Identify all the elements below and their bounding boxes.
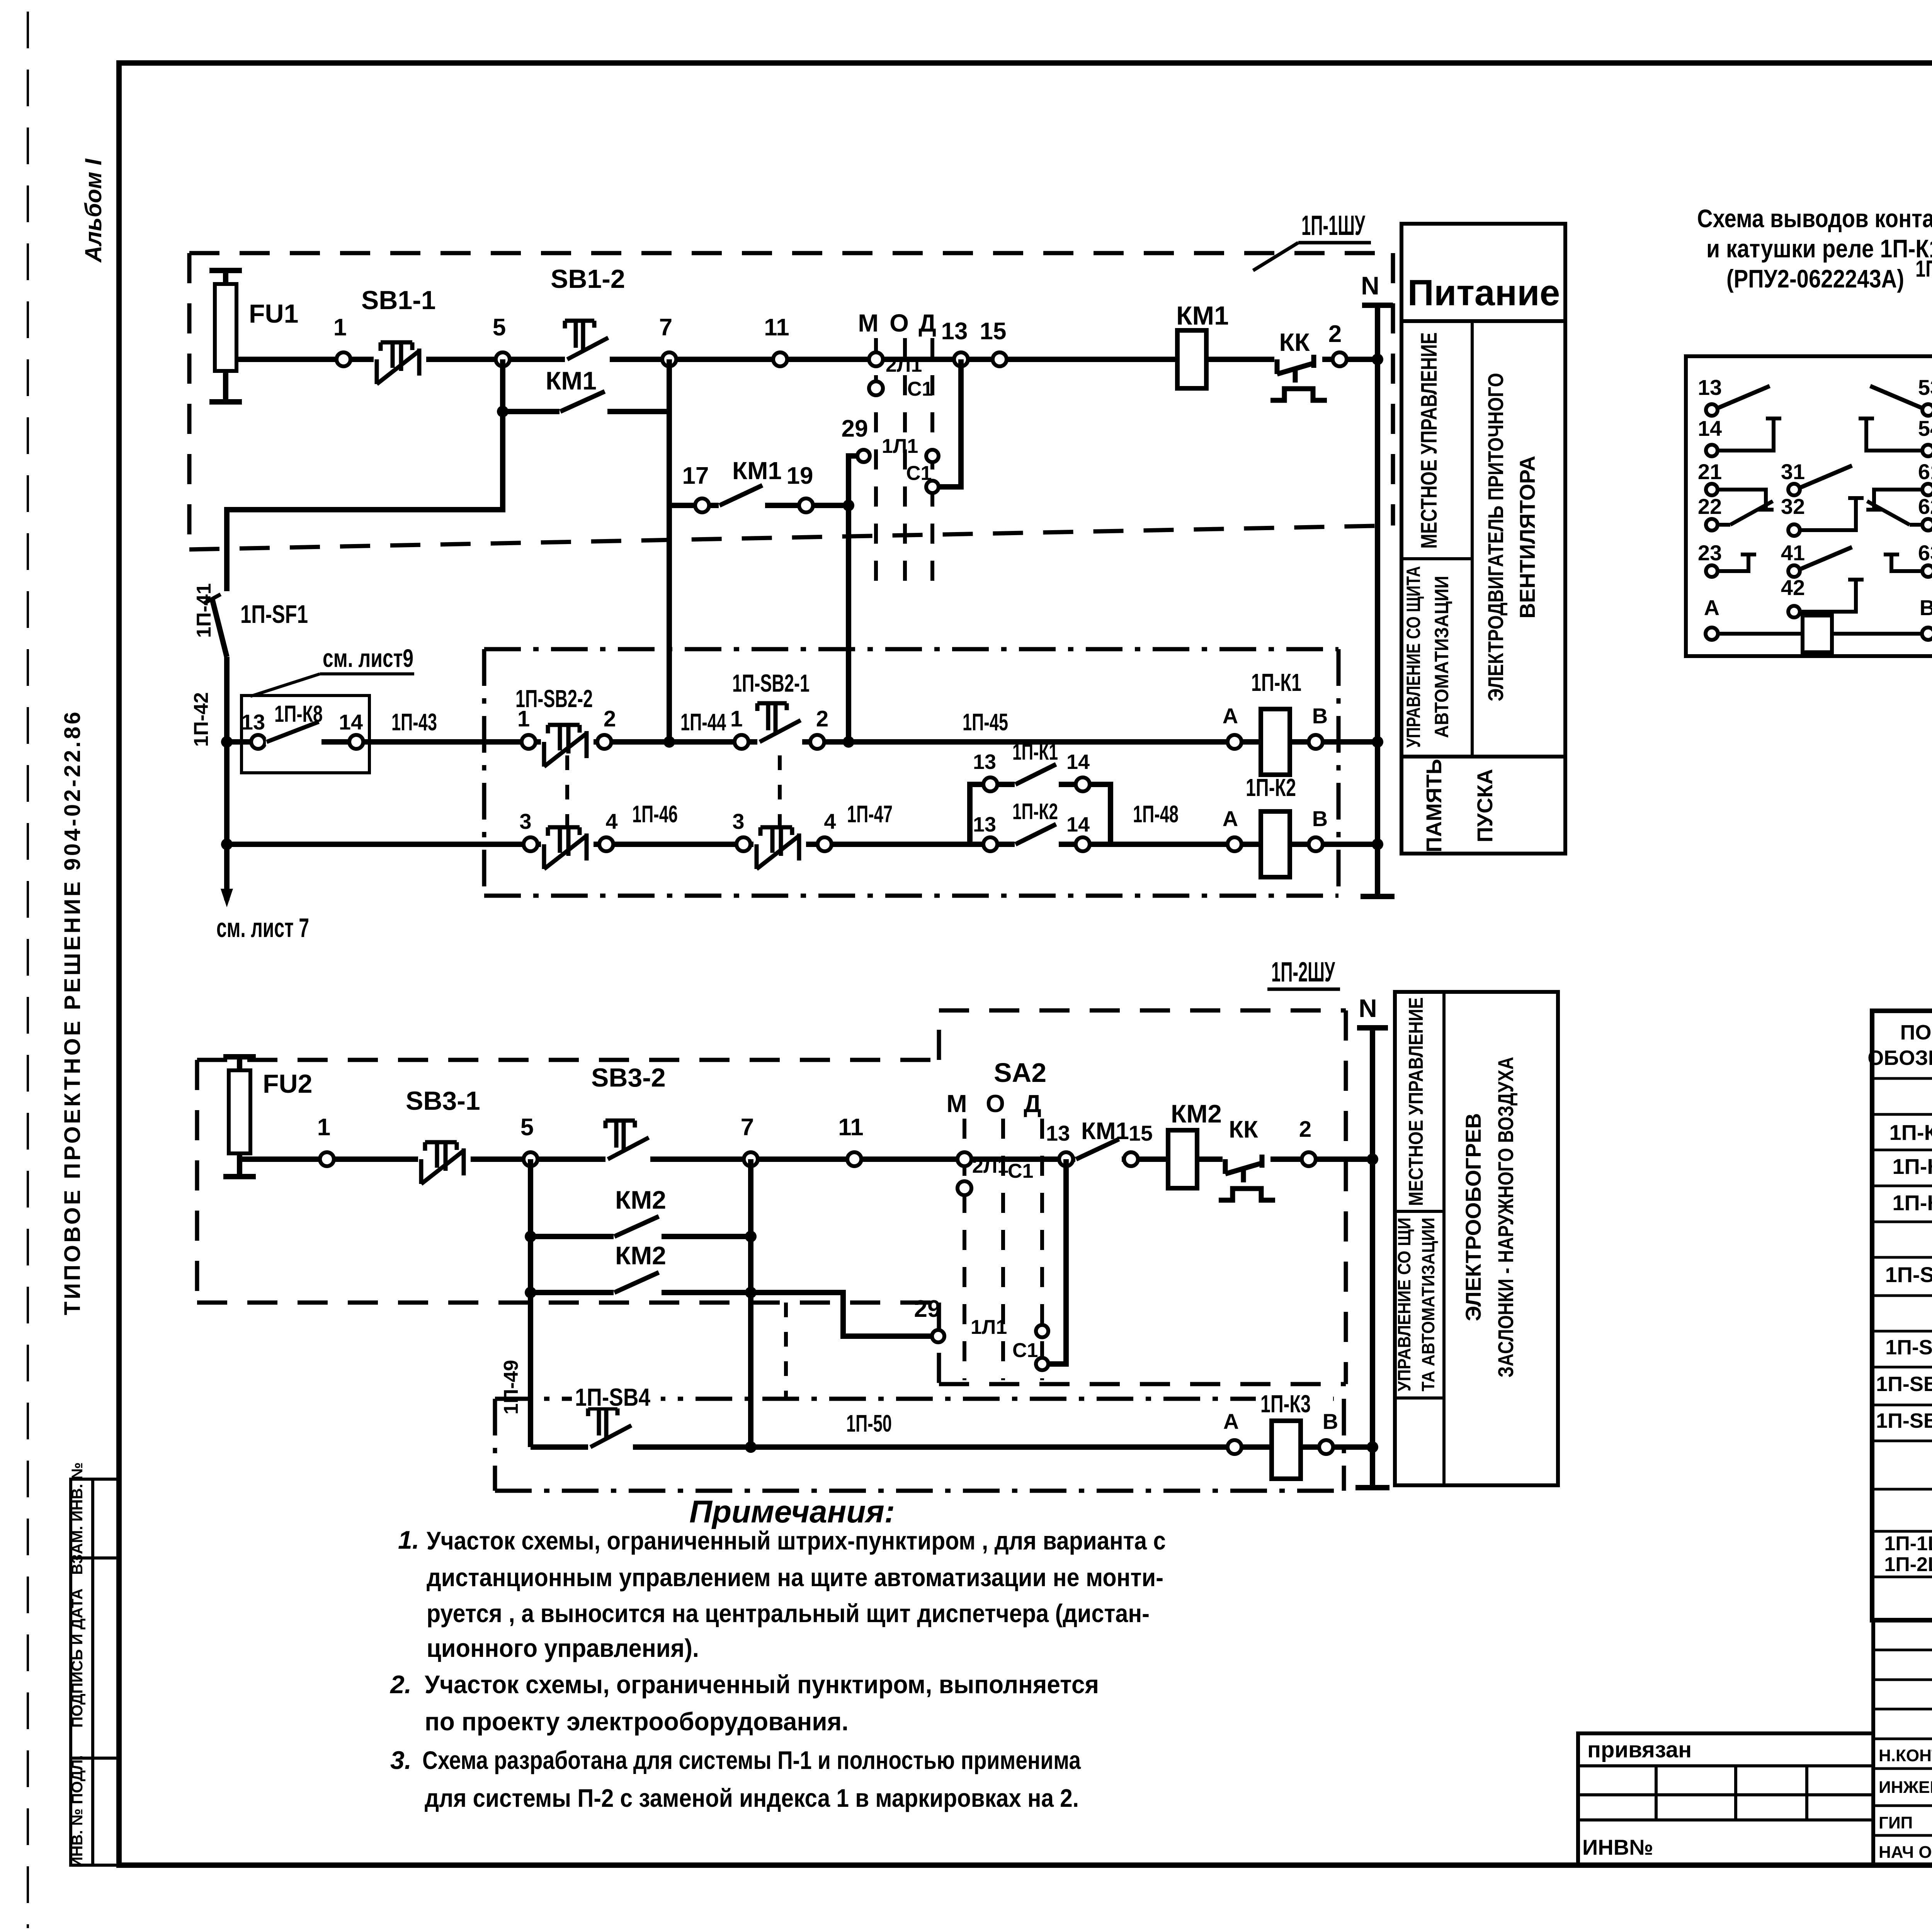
svg-text:С1: С1: [907, 378, 933, 400]
svg-text:1Л1: 1Л1: [882, 435, 918, 457]
svg-text:53: 53: [1918, 375, 1932, 400]
svg-text:1П-48: 1П-48: [1133, 801, 1179, 828]
svg-text:1: 1: [730, 706, 743, 731]
svg-text:13: 13: [1698, 375, 1722, 400]
svg-text:42: 42: [1781, 575, 1805, 600]
svg-text:А: А: [1704, 595, 1719, 620]
svg-text:2: 2: [604, 706, 616, 731]
svg-text:1П-46: 1П-46: [632, 801, 678, 828]
svg-text:ПАМЯТЬ: ПАМЯТЬ: [1422, 759, 1446, 852]
svg-text:1: 1: [317, 1114, 330, 1141]
svg-text:1П-1ШУ: 1П-1ШУ: [1301, 210, 1366, 241]
svg-text:1Л1: 1Л1: [971, 1316, 1007, 1338]
svg-text:О: О: [889, 309, 909, 337]
svg-text:1П-SB4: 1П-SB4: [575, 1383, 650, 1411]
svg-text:ВЗАМ. ИНВ. №: ВЗАМ. ИНВ. №: [69, 1462, 86, 1575]
svg-text:А: А: [1223, 1409, 1239, 1434]
svg-text:ционного управления).: ционного управления).: [427, 1634, 699, 1662]
svg-text:1П-SF1: 1П-SF1: [240, 600, 308, 628]
svg-text:В: В: [1920, 595, 1932, 620]
svg-text:КМ2: КМ2: [615, 1185, 666, 1214]
svg-text:1П-44: 1П-44: [680, 709, 726, 736]
svg-text:Питание: Питание: [1408, 272, 1560, 313]
svg-text:1П-К2: 1П-К2: [1246, 774, 1296, 801]
svg-text:ИНЖЕН.: ИНЖЕН.: [1879, 1778, 1932, 1797]
svg-text:С1: С1: [906, 462, 932, 485]
svg-text:Д: Д: [918, 309, 936, 337]
svg-text:1П-SB2-1: 1П-SB2-1: [1876, 1372, 1932, 1396]
svg-text:ВЕНТИЛЯТОРА: ВЕНТИЛЯТОРА: [1515, 456, 1539, 618]
svg-text:21: 21: [1698, 459, 1722, 484]
svg-text:13: 13: [973, 813, 996, 836]
svg-text:2Л1: 2Л1: [886, 354, 922, 376]
svg-text:(РПУ2-0622243А): (РПУ2-0622243А): [1726, 264, 1904, 293]
svg-text:14: 14: [1698, 416, 1722, 440]
svg-text:1П-К1: 1П-К1: [1012, 740, 1058, 765]
svg-text:АВТОМАТИЗАЦИИ: АВТОМАТИЗАЦИИ: [1431, 576, 1452, 738]
svg-text:ИНВ. № ПОДЛ.: ИНВ. № ПОДЛ.: [69, 1755, 86, 1867]
svg-text:1П-49: 1П-49: [500, 1360, 522, 1414]
svg-text:В: В: [1312, 806, 1328, 831]
svg-text:см. лист9: см. лист9: [323, 644, 413, 672]
svg-text:ПОЗ: ПОЗ: [1900, 1021, 1932, 1044]
svg-text:3.: 3.: [390, 1746, 412, 1774]
svg-text:1П-SB2-1: 1П-SB2-1: [732, 669, 810, 697]
svg-text:1П-К2: 1П-К2: [1892, 1154, 1932, 1179]
svg-text:41: 41: [1781, 541, 1805, 565]
svg-text:1П-К3: 1П-К3: [1260, 1390, 1311, 1418]
svg-text:SB3-1: SB3-1: [406, 1086, 480, 1116]
svg-text:МЕСТНОЕ УПРАВЛЕНИЕ: МЕСТНОЕ УПРАВЛЕНИЕ: [1405, 997, 1427, 1206]
svg-text:Н.КОНТР.: Н.КОНТР.: [1879, 1746, 1932, 1765]
svg-text:3: 3: [519, 809, 531, 833]
svg-text:1П-SF1: 1П-SF1: [1885, 1262, 1932, 1287]
svg-text:руется , а выносится на цен: руется , а выносится на центральный щит …: [427, 1599, 1150, 1628]
svg-text:FU1: FU1: [249, 299, 298, 328]
svg-text:1П-К1: 1П-К1: [1251, 668, 1301, 696]
svg-text:15: 15: [980, 318, 1007, 345]
svg-text:ЭЛЕКТРООБОГРЕВ: ЭЛЕКТРООБОГРЕВ: [1461, 1113, 1485, 1321]
svg-text:для системы П-2 с заменой: для системы П-2 с заменой индекса 1 в ма…: [425, 1784, 1079, 1812]
svg-text:13: 13: [241, 710, 265, 734]
svg-text:КМ1: КМ1: [732, 457, 782, 485]
svg-text:УПРАВЛЕНИЕ СО ЩИТА: УПРАВЛЕНИЕ СО ЩИТА: [1403, 566, 1424, 748]
svg-text:22: 22: [1698, 494, 1722, 519]
svg-text:1П-43: 1П-43: [391, 709, 437, 736]
svg-text:В: В: [1312, 704, 1328, 728]
svg-text:13: 13: [973, 750, 996, 774]
svg-text:2Л1: 2Л1: [972, 1155, 1009, 1177]
svg-text:М: М: [858, 309, 878, 337]
svg-text:N: N: [1359, 994, 1377, 1022]
svg-text:КМ2: КМ2: [1171, 1099, 1222, 1128]
svg-text:Схема разработана для систе: Схема разработана для системы П-1 и полн…: [422, 1746, 1081, 1774]
svg-text:1П-41: 1П-41: [193, 583, 215, 638]
svg-text:1П-45: 1П-45: [963, 709, 1008, 736]
svg-text:ПОДПИСЬ И ДАТА: ПОДПИСЬ И ДАТА: [69, 1588, 86, 1728]
svg-text:1П-К8: 1П-К8: [274, 701, 323, 727]
svg-text:С1: С1: [1012, 1339, 1038, 1362]
svg-text:ТИПОВОЕ ПРОЕКТНОЕ РЕШЕНИЕ: ТИПОВОЕ ПРОЕКТНОЕ РЕШЕНИЕ 904-02-22.86: [60, 709, 85, 1315]
svg-text:см. лист 7: см. лист 7: [216, 913, 309, 943]
svg-text:SA2: SA2: [994, 1058, 1046, 1088]
svg-text:SB3-2: SB3-2: [591, 1063, 666, 1092]
svg-text:КК: КК: [1279, 328, 1310, 356]
svg-text:32: 32: [1781, 494, 1805, 519]
svg-text:1П-К1,: 1П-К1,: [1889, 1120, 1932, 1145]
svg-text:14: 14: [1066, 750, 1090, 774]
svg-text:А: А: [1223, 806, 1238, 831]
svg-text:11: 11: [764, 314, 789, 341]
svg-text:КМ2: КМ2: [615, 1241, 666, 1270]
svg-text:1П-К8, 2П-К8: 1П-К8, 2П-К8: [1915, 256, 1932, 282]
svg-text:11: 11: [838, 1114, 864, 1141]
svg-text:1П-1ШУ: 1П-1ШУ: [1884, 1532, 1932, 1555]
svg-text:62: 62: [1918, 494, 1932, 519]
svg-text:ОБОЗНАЧ.: ОБОЗНАЧ.: [1867, 1046, 1932, 1070]
svg-text:15: 15: [1129, 1121, 1153, 1145]
svg-text:ПУСКА: ПУСКА: [1473, 769, 1497, 842]
svg-text:3: 3: [732, 809, 744, 833]
svg-text:13: 13: [941, 318, 968, 345]
svg-text:КМ1: КМ1: [1081, 1118, 1129, 1145]
svg-text:1П-50: 1П-50: [846, 1410, 892, 1437]
svg-text:2.: 2.: [389, 1670, 412, 1699]
svg-text:В: В: [1323, 1409, 1338, 1434]
svg-text:Примечания:: Примечания:: [689, 1494, 895, 1529]
svg-text:НАЧ ОТД.: НАЧ ОТД.: [1879, 1843, 1932, 1862]
svg-text:КК: КК: [1229, 1116, 1258, 1143]
svg-text:5: 5: [520, 1114, 534, 1141]
svg-text:FU2: FU2: [263, 1069, 312, 1099]
svg-text:17: 17: [682, 463, 709, 489]
svg-text:1П-SB2-2: 1П-SB2-2: [515, 685, 593, 713]
svg-text:SB1-2: SB1-2: [551, 264, 625, 294]
svg-text:дистанционным управлением на: дистанционным управлением на щите автома…: [427, 1563, 1163, 1592]
svg-text:14: 14: [1066, 813, 1090, 836]
svg-text:УПРАВЛЕНИЕ СО ЩИ: УПРАВЛЕНИЕ СО ЩИ: [1394, 1218, 1414, 1391]
svg-text:Схема выводов контактов: Схема выводов контактов: [1697, 204, 1932, 233]
svg-text:5: 5: [493, 314, 506, 341]
svg-text:1П-SB2-2: 1П-SB2-2: [1876, 1409, 1932, 1432]
svg-text:61: 61: [1918, 459, 1932, 484]
svg-text:и катушки реле 1П-К1, 1П-К2,: и катушки реле 1П-К1, 1П-К2,: [1706, 234, 1932, 263]
svg-text:29: 29: [842, 415, 868, 442]
svg-text:1П-К2: 1П-К2: [1012, 799, 1058, 824]
svg-text:ТА АВТОМАТИЗАЦИИ: ТА АВТОМАТИЗАЦИИ: [1418, 1218, 1438, 1391]
svg-text:Участок схемы, ограниченный шт: Участок схемы, ограниченный штрих-пункти…: [427, 1526, 1166, 1555]
svg-text:С1: С1: [1008, 1160, 1033, 1182]
svg-text:1.: 1.: [398, 1526, 419, 1554]
svg-text:1П-47: 1П-47: [847, 801, 893, 828]
svg-text:4: 4: [824, 809, 836, 833]
svg-text:ЗАСЛОНКИ - НАРУЖНОГО ВОЗДУХА: ЗАСЛОНКИ - НАРУЖНОГО ВОЗДУХА: [1493, 1057, 1518, 1378]
svg-text:14: 14: [339, 710, 363, 734]
svg-text:ИНВ№: ИНВ№: [1582, 1835, 1653, 1859]
svg-text:31: 31: [1781, 459, 1805, 484]
svg-text:Д: Д: [1024, 1090, 1041, 1117]
svg-text:29: 29: [914, 1296, 941, 1322]
svg-text:N: N: [1361, 271, 1379, 300]
svg-text:2: 2: [816, 706, 828, 731]
svg-text:привязан: привязан: [1587, 1737, 1692, 1762]
svg-text:2: 2: [1328, 321, 1342, 347]
svg-text:Участок схемы, ограниченный: Участок схемы, ограниченный пунктиром, в…: [425, 1670, 1099, 1699]
svg-text:1П-SB4: 1П-SB4: [1885, 1336, 1932, 1359]
svg-text:23: 23: [1698, 541, 1722, 565]
svg-text:1: 1: [333, 314, 347, 341]
svg-text:А: А: [1223, 704, 1238, 728]
svg-text:О: О: [986, 1090, 1005, 1117]
svg-text:МЕСТНОЕ УПРАВЛЕНИЕ: МЕСТНОЕ УПРАВЛЕНИЕ: [1417, 332, 1442, 549]
svg-text:4: 4: [605, 809, 617, 833]
svg-text:SB1-1: SB1-1: [361, 286, 436, 315]
svg-text:1П-2ШУ: 1П-2ШУ: [1884, 1553, 1932, 1576]
svg-text:ЭЛЕКТРОДВИГАТЕЛЬ ПРИТОЧНОГО: ЭЛЕКТРОДВИГАТЕЛЬ ПРИТОЧНОГО: [1483, 373, 1508, 701]
svg-text:М: М: [946, 1090, 967, 1117]
svg-text:13: 13: [1046, 1121, 1070, 1145]
svg-text:19: 19: [787, 463, 813, 489]
svg-text:Альбом I: Альбом I: [80, 158, 106, 263]
svg-text:по проекту электрооборудо: по проекту электрооборудования.: [425, 1707, 849, 1736]
svg-text:1П-2ШУ: 1П-2ШУ: [1271, 957, 1335, 988]
svg-text:ГИП: ГИП: [1879, 1813, 1913, 1832]
svg-text:7: 7: [659, 314, 672, 341]
svg-text:63: 63: [1918, 541, 1932, 565]
svg-text:КМ1: КМ1: [546, 366, 597, 395]
svg-text:1П-К3: 1П-К3: [1892, 1190, 1932, 1215]
svg-text:54: 54: [1918, 416, 1932, 440]
svg-text:1П-42: 1П-42: [190, 692, 213, 747]
svg-text:2: 2: [1299, 1117, 1311, 1142]
svg-text:7: 7: [741, 1114, 754, 1141]
svg-text:КМ1: КМ1: [1176, 301, 1229, 330]
